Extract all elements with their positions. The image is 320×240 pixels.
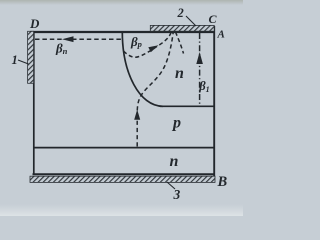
svg-text:3: 3 — [173, 187, 181, 202]
label n (pocket region) — [175, 65, 184, 82]
contact 2 (hatched electrode on top right, terminal C) — [150, 25, 214, 31]
wire: p-n junction line above bottom n layer — [34, 147, 214, 149]
label A (terminal) — [217, 29, 225, 41]
dashed flow trajectory from bottom junction up to contact 2 — [137, 32, 173, 147]
arrowhead of beta-1 (points up) — [196, 52, 203, 64]
junction arc of n pocket — [122, 32, 163, 106]
short dashed trajectory from contact 2 down-right — [176, 32, 184, 54]
svg-text:A: A — [217, 29, 225, 41]
svg-text:2: 2 — [177, 6, 184, 20]
label B (terminal) — [217, 174, 228, 190]
wire: left edge of device — [33, 31, 35, 175]
label 2 with leader line — [177, 6, 197, 26]
label D (terminal) — [29, 16, 40, 31]
arrowhead of beta-p (points up-right) — [148, 45, 158, 52]
dash-dot drift line beta-1 — [199, 33, 201, 106]
svg-text:D: D — [29, 16, 40, 31]
svg-text:B: B — [217, 174, 228, 190]
label p (base region) — [171, 115, 181, 132]
arrowhead on trajectory (points up) — [134, 110, 140, 120]
svg-text:p: p — [171, 115, 181, 132]
dashed flow line beta-n along top surface — [35, 38, 122, 40]
wire: right edge of device — [213, 26, 215, 177]
label beta-n — [55, 41, 68, 57]
label beta-1 — [198, 79, 209, 94]
arrowhead of beta-n (points left) — [62, 36, 74, 42]
wire: top edge of device (D-C surface) — [31, 31, 215, 33]
paper background — [0, 0, 243, 216]
wire: bottom boundary of n pocket — [160, 105, 214, 107]
label 1 with leader line — [12, 53, 29, 67]
label n (bottom layer) — [170, 153, 179, 170]
label beta-p — [130, 34, 142, 49]
dashed flow line beta-p inside n pocket — [124, 32, 172, 58]
label 3 with leader line — [167, 182, 181, 202]
wire: bottom edge of device — [33, 173, 215, 175]
svg-text:n: n — [175, 65, 184, 82]
svg-text:n: n — [170, 153, 179, 170]
label C (terminal) — [209, 12, 218, 26]
svg-text:1: 1 — [12, 53, 18, 67]
contact 3 (hatched electrode at bottom, terminal B) — [30, 176, 215, 182]
svg-text:C: C — [209, 12, 218, 26]
contact 1 (hatched electrode at left, terminal D) — [28, 31, 34, 83]
